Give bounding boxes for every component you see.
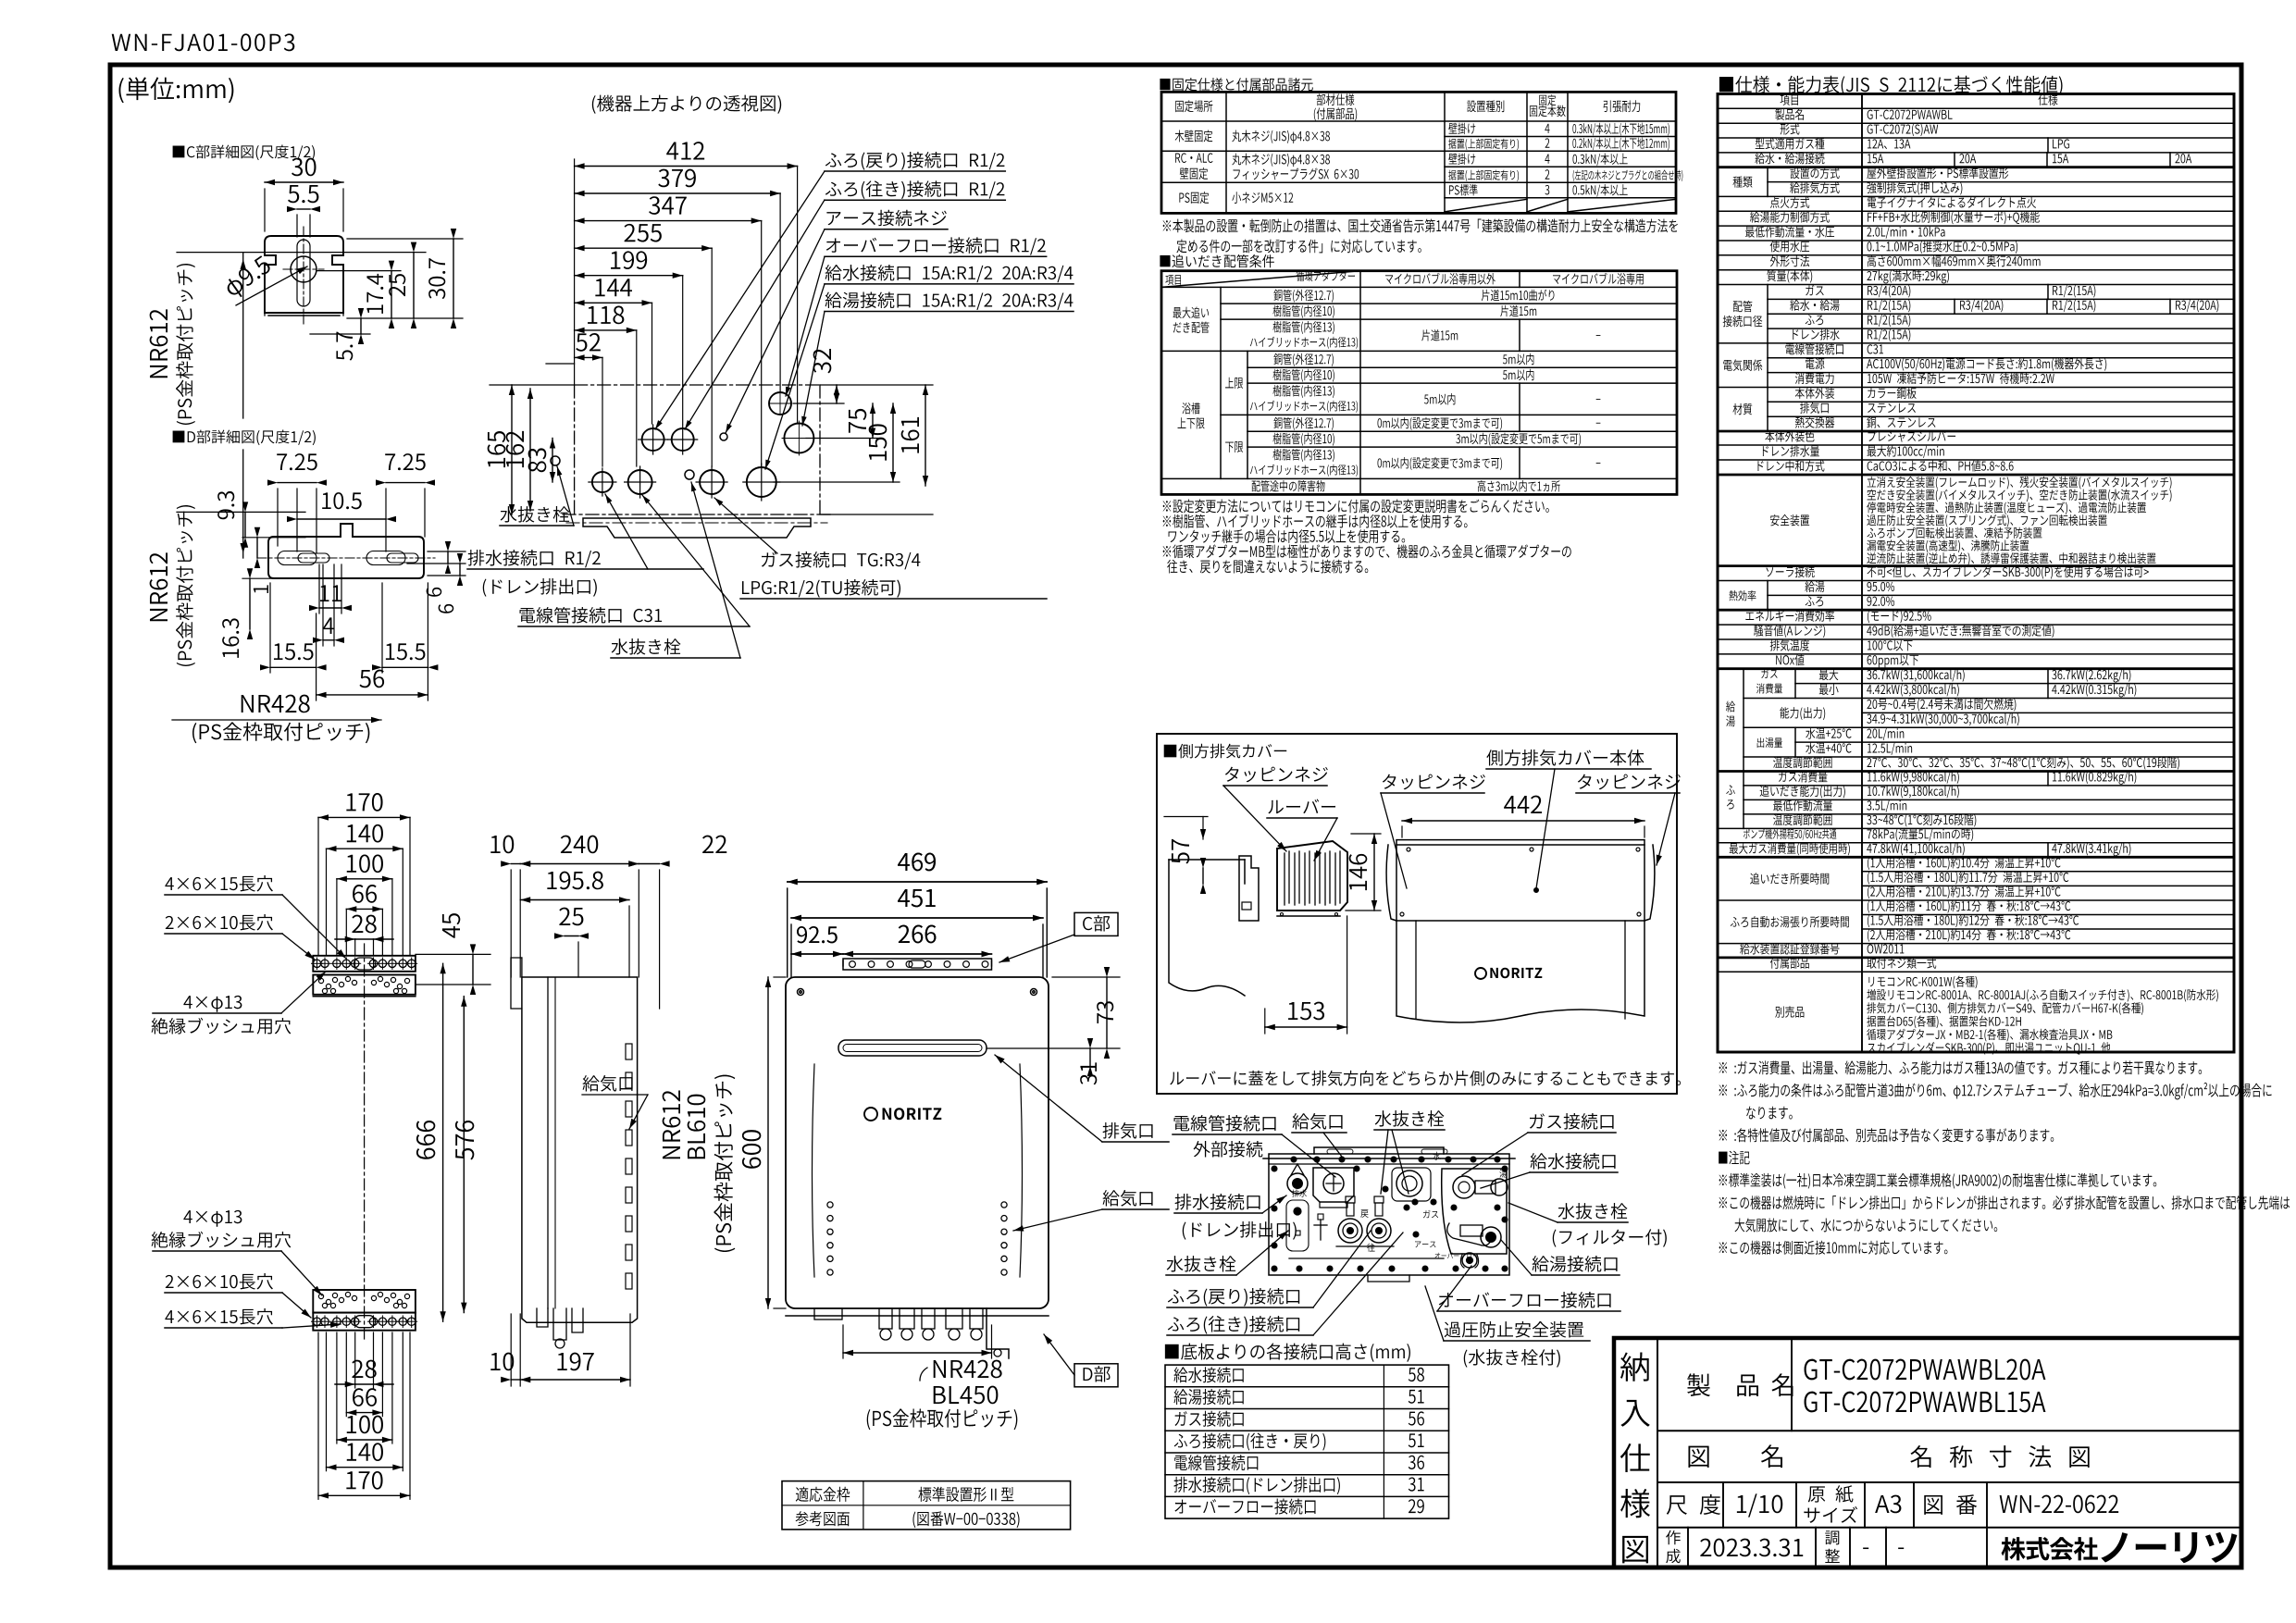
spec table lower rows [1766,566,1814,577]
front view right dims 73 31 [1052,976,1120,978]
front view air hole dots [786,977,1049,1308]
vertical 666 576 dimension lines [442,963,444,1321]
title block row1 product names [1791,1338,1793,1431]
C-part NR612 pitch line [265,181,343,183]
title block row3 scale/size/number [1722,1482,1724,1528]
top view callout labels right [825,152,1005,170]
lower bracket dimension stack [355,1383,374,1385]
upper bracket plate [313,956,416,972]
applicable frame table [782,1481,1071,1530]
title block frame [1614,1338,2241,1567]
exhaust port label [1103,1122,1153,1139]
C-part detail title [173,145,315,161]
side view bottom dims [522,977,638,1322]
cover noritz logo [1396,840,1644,845]
spec table title [1719,76,2063,95]
upper bracket dimension stack [318,816,410,818]
153 dim [1161,857,1251,1003]
fixing table grid [1161,92,1676,213]
lower bracket labels [183,1210,242,1227]
piping table grid [1161,271,1677,495]
Noritz company logo text [2002,1537,2098,1560]
C-part box label [788,881,1048,883]
connection heights text [1173,1367,1243,1382]
air intake label right [1103,1190,1153,1207]
bottom view screw dots [1269,1154,1509,1275]
top view vertical dims left [511,385,513,514]
top view connection holes row2 [642,428,664,451]
title block row2 drawing name [1688,1446,1708,1468]
top view vertical dims right [836,385,838,403]
spec table grid [1718,94,2234,1053]
NR612 BL610 vertical labels [663,1090,681,1158]
side view top dims [511,863,520,865]
top view horizontal dimension stack [575,166,798,167]
connection heights grid [1165,1365,1449,1518]
top view lower callouts [501,506,570,522]
piping table text [1165,275,1181,285]
45 dim right of bracket [416,953,490,955]
side exhaust cover box frame [1157,734,1677,1094]
cover labels [1225,767,1328,783]
front view top dims [788,881,1048,883]
top view bottom cover outline [575,384,820,386]
note under fixing table [1163,218,1678,232]
D-part detail title [173,430,316,446]
front view bottom fittings [786,1315,1049,1317]
unit label (単位:mm) [118,77,233,103]
D-part box label [1074,1364,1118,1387]
lower bracket rail [313,1290,416,1313]
spec rows [1781,94,1798,105]
D-part dims [278,482,316,484]
D-part slots [268,524,424,578]
top view title [592,95,781,114]
cover box note [1170,1071,1681,1086]
title block row4 date and company [1687,1528,1689,1567]
442 dim [1402,820,1644,822]
upper bracket labels [165,875,273,891]
piping cond table title [1160,254,1273,267]
side exhaust cover title [1164,744,1287,759]
fixing table title [1160,78,1312,91]
C-part keyhole slot [265,236,343,313]
title block vertical label 納入仕様図 [1620,1352,1649,1381]
connection heights table title [1165,1343,1410,1361]
notes under spec table [1719,1060,2202,1074]
page header text WN-FJA01-00P3 [112,33,295,51]
NR428 BL450 bottom labels [843,1352,992,1354]
fixing table text [1175,100,1212,112]
spec table safety cell [1770,514,1809,526]
600 height dim [767,977,769,1308]
bottom view callout labels [1174,1115,1276,1132]
notes under piping table [1163,500,1549,514]
